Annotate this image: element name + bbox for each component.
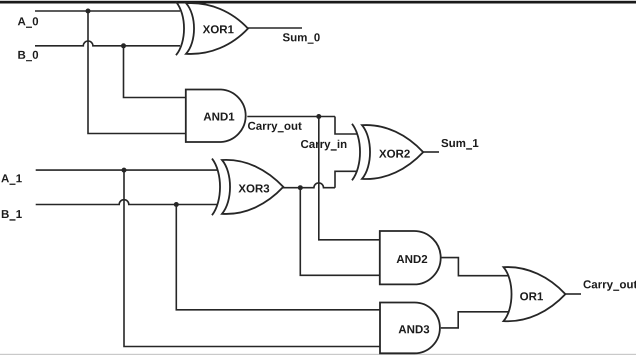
wire Carry_in step into XOR2 upper input [335,117,357,135]
xor gate XOR3 [212,159,283,216]
wire vertical from A_1 down to AND3 lower input [124,170,380,346]
label XOR3 [238,184,269,192]
label B_0 [18,51,38,62]
xor gate XOR2 [352,124,423,181]
node junction A_0 branch [86,9,91,14]
wire B_1 input with hop over vertical [36,200,217,205]
label AND2 [397,255,428,263]
wire AND1 output Carry_out [247,116,335,118]
wire A_0 input [35,10,180,12]
label AND3 [399,325,430,333]
and gate AND3 [380,303,440,354]
wire Carry_in vertical down to AND2 upper input [319,117,380,240]
or gate OR1 [504,267,566,321]
label Sum_1 [441,139,478,150]
node junction XOR3 output [298,185,303,190]
bottom faint border [0,354,636,355]
label A_1 [1,174,22,185]
and gate AND2 [380,231,441,284]
label Sum_0 [283,33,320,44]
wire A_1 input [36,169,217,171]
wire vertical from A_0 to AND1 lower input [88,11,186,134]
label B_1 [2,210,22,221]
label Carry_out (stage 0) [248,122,302,133]
wire vertical from B_0 to AND1 upper input [124,46,186,98]
label A_0 [18,17,38,28]
label Carry_out (final) [584,280,636,291]
wire AND2 output to OR1 upper input [440,258,508,276]
wire XOR3 output with hop over Carry_in vertical [283,183,335,188]
label Carry_in [301,140,346,151]
wire B_0 input with hop over vertical [35,41,180,46]
node junction Carry_in [316,114,321,119]
xor gate XOR1 [176,2,248,55]
wire XOR1 output Sum_0 [248,27,302,29]
node junction A_1 branch [122,168,127,173]
node junction B_0 branch [121,43,126,48]
label OR1 [520,292,543,300]
label XOR1 [203,25,234,33]
wire vertical from B_1 down to AND3 upper input [176,205,380,310]
node junction B_1 branch [174,202,179,207]
wire step up into XOR2 lower input [335,171,357,187]
top border bar [0,1,636,4]
wire OR1 output Carry_out [565,293,581,295]
label XOR2 [379,150,410,158]
and gate AND1 [186,90,246,143]
wire XOR2 output Sum_1 [423,151,439,153]
label AND1 [204,113,235,121]
wire AND3 output to OR1 lower input [441,312,508,328]
wire XOR3-out vertical down to AND2 lower input [300,188,380,276]
